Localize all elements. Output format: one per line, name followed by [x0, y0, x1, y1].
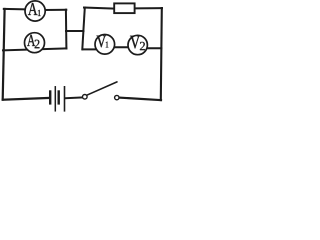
wire: A2 branch horizontal: [3, 48, 66, 50]
ammeter A1: [25, 1, 45, 21]
wire: switch to bottom-right corner: [119, 98, 161, 101]
label A2 letter A: [27, 35, 35, 46]
wire: top branch to resistor: [84, 8, 114, 9]
label V1 subscript 1: [106, 42, 108, 48]
wire: V branch left stub: [83, 48, 101, 50]
label A1 subscript 1: [38, 10, 41, 16]
label A1 letter A: [28, 3, 38, 15]
wire: resistor to top-right corner: [135, 7, 162, 9]
wire: right vertical rail: [161, 8, 162, 100]
wire: left vertical rail: [3, 9, 5, 100]
voltmeter V1: [95, 35, 115, 55]
battery plate short (negative) 2: [58, 92, 60, 104]
wire: A1 right to junction vertical: [45, 9, 66, 11]
voltmeter V2: [128, 35, 147, 54]
wire: junction vertical between A1 and A2 branches: [65, 10, 68, 49]
battery plate long (positive) 1: [54, 87, 56, 111]
label V2 subscript 2: [140, 42, 145, 50]
label A2 subscript 2: [35, 40, 40, 48]
switch contact circle right: [115, 95, 119, 99]
wire: bottom rail left of battery: [3, 98, 50, 100]
resistor R: [114, 3, 134, 13]
wire: V2 to right rail: [142, 47, 161, 49]
battery plate long (positive) 2: [64, 87, 66, 111]
battery plate short (negative) 1: [49, 92, 51, 104]
wire: top-left horizontal to A1: [4, 8, 25, 11]
switch contact circle left: [83, 95, 88, 100]
label V2 letter V: [130, 36, 140, 49]
wire: middle horizontal link: [66, 30, 84, 32]
wire: right-loop left vertical: [82, 8, 85, 50]
wire: battery to switch: [65, 96, 82, 99]
switch lever (open): [87, 82, 117, 95]
wire: V1 to V2 link: [110, 46, 133, 48]
ammeter A2: [25, 33, 45, 53]
label V1 letter V: [97, 36, 106, 48]
